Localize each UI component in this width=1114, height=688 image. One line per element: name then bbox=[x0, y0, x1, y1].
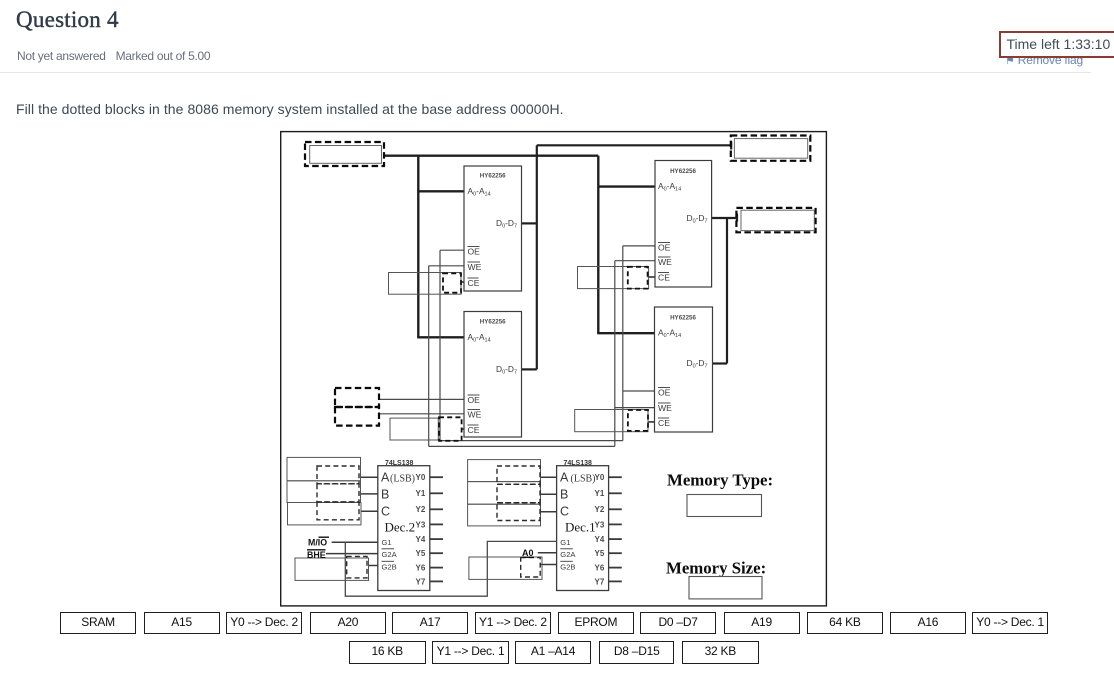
drop zone white box at U2 CE bbox=[390, 418, 438, 440]
svg-text:Dec.2: Dec.2 bbox=[385, 520, 416, 535]
wire: M/IO to Dec.2 G1 bbox=[332, 541, 378, 543]
svg-text:A0-A14: A0-A14 bbox=[468, 332, 491, 344]
svg-text:Y6: Y6 bbox=[416, 564, 426, 573]
svg-text:Y1: Y1 bbox=[595, 489, 605, 498]
wire: U1 OE stub bbox=[440, 249, 464, 251]
Memory Type answer box bbox=[687, 495, 762, 517]
svg-text:BHE: BHE bbox=[307, 550, 326, 560]
svg-text:A: A bbox=[381, 471, 390, 485]
svg-text:G1: G1 bbox=[560, 538, 570, 547]
U2 pin labels bbox=[468, 319, 518, 436]
svg-text:Y1: Y1 bbox=[416, 489, 426, 498]
divider bbox=[0, 72, 1091, 74]
Dec.1 G2B drop zone white box bbox=[469, 557, 542, 579]
U1 pin overbars OE WE CE bbox=[468, 247, 481, 279]
wire: U2 A0-A14 stub bbox=[417, 336, 464, 338]
svg-text:OE: OE bbox=[468, 395, 481, 405]
svg-text:Y7: Y7 bbox=[416, 577, 426, 586]
svg-text:G2A: G2A bbox=[560, 550, 576, 559]
wire: U1 D0-D7 stub bbox=[522, 222, 537, 224]
Dec.1 G2B drop target dashed box bbox=[521, 558, 541, 578]
U3 pin labels bbox=[658, 168, 708, 283]
svg-text:A0: A0 bbox=[522, 548, 534, 558]
drop zone white box at U1 CE bbox=[389, 273, 462, 295]
wire: WE chain right vertical bbox=[614, 261, 616, 447]
U4 pin overbars OE WE CE bbox=[658, 388, 671, 419]
flag link (partially hidden) bbox=[1005, 53, 1083, 67]
wire: Dec.2 G2B from dashed source bbox=[369, 565, 378, 567]
wire: WE source to U2 WE bbox=[379, 413, 464, 415]
svg-text:A0-A14: A0-A14 bbox=[468, 186, 491, 198]
svg-text:D0-D7: D0-D7 bbox=[687, 358, 708, 370]
U4 pin labels bbox=[658, 315, 708, 429]
memory chip U1 HY62256 bbox=[464, 166, 522, 291]
drop target dashed box D8-D15 (top right) bbox=[731, 136, 811, 161]
wire: OE chain left vertical bbox=[439, 250, 441, 440]
svg-text:74LS138: 74LS138 bbox=[385, 460, 414, 467]
svg-text:Y4: Y4 bbox=[595, 535, 605, 544]
drop target dashed box at U1 CE bbox=[443, 273, 461, 292]
svg-text:Memory Type:: Memory Type: bbox=[667, 471, 773, 490]
svg-text:(LSB): (LSB) bbox=[571, 473, 596, 484]
wire: U4 D0-D7 stub bbox=[713, 362, 728, 364]
wire: U2 D0-D7 stub bbox=[522, 368, 537, 370]
svg-text:A0-A14: A0-A14 bbox=[658, 328, 681, 340]
white box inside A1-A14 source bbox=[310, 146, 382, 164]
svg-text:Y6: Y6 bbox=[595, 564, 605, 573]
memory chip U2 HY62256 bbox=[464, 312, 522, 438]
svg-text:Y2: Y2 bbox=[416, 505, 426, 514]
wire: U3 OE stub bbox=[623, 245, 655, 247]
Dec.1 G2A G2B overbars bbox=[560, 549, 573, 562]
wire: U3 D0-D7 to low data block bbox=[712, 217, 738, 219]
svg-text:CE: CE bbox=[658, 273, 670, 283]
Dec.2 G2B drop target dashed box bbox=[347, 556, 367, 578]
decoder U6 74LS138 Dec.1 bbox=[557, 466, 609, 591]
svg-text:C: C bbox=[560, 505, 569, 519]
svg-text:74LS138: 74LS138 bbox=[564, 460, 593, 467]
svg-text:G2B: G2B bbox=[382, 562, 397, 571]
svg-text:HY62256: HY62256 bbox=[480, 319, 506, 326]
drop target dashed box WE source (left middle) bbox=[335, 407, 379, 426]
svg-text:B: B bbox=[560, 488, 568, 502]
svg-text:B: B bbox=[381, 488, 389, 502]
svg-text:CE: CE bbox=[468, 278, 480, 288]
wire: data bus D0-D7 vertical bbox=[726, 218, 728, 364]
wire: U3 A0-A14 stub bbox=[598, 185, 655, 187]
svg-text:OE: OE bbox=[658, 388, 671, 398]
wire: WE chain bottom horizontal bbox=[429, 445, 615, 447]
Dec.2 input drop zone white boxes bbox=[287, 457, 361, 480]
drop zone white box at U3 CE bbox=[578, 267, 649, 289]
svg-text:M/IO: M/IO bbox=[308, 537, 327, 547]
U3 pin overbars OE WE CE bbox=[658, 243, 671, 273]
wire: OE source to U2 OE bbox=[379, 398, 464, 400]
memory chip U4 HY62256 bbox=[655, 307, 713, 432]
wire: OE chain bottom horizontal bbox=[440, 440, 623, 442]
svg-text:HY62256: HY62256 bbox=[670, 168, 696, 175]
white box inside D8-D15 bbox=[734, 139, 807, 159]
drop target dashed box OE source (left middle) bbox=[335, 388, 379, 407]
wire: U3 WE stub bbox=[615, 260, 655, 262]
diagram outer frame bbox=[281, 132, 827, 606]
wire end tick at D0-D7 block bbox=[736, 214, 738, 222]
svg-text:G1: G1 bbox=[382, 538, 392, 547]
wire: U2 CE stub bbox=[461, 428, 464, 430]
Memory Size answer box bbox=[689, 577, 762, 599]
wire: Dec.1 G2B from dashed source bbox=[540, 564, 556, 566]
wire: U3 CE stub bbox=[648, 276, 655, 278]
Dec.1 labels bbox=[560, 460, 605, 587]
Dec.2 labels bbox=[381, 460, 426, 587]
svg-text:WE: WE bbox=[468, 410, 482, 420]
wire: M/IO branch down to Dec.1 G1 bbox=[345, 541, 556, 596]
wire end tick at D8-D15 block bbox=[730, 142, 732, 150]
svg-text:C: C bbox=[381, 505, 390, 519]
svg-text:WE: WE bbox=[658, 403, 672, 413]
Dec.2 G2A G2B overbars bbox=[382, 549, 395, 562]
svg-text:G2B: G2B bbox=[560, 562, 575, 571]
question text bbox=[16, 101, 564, 117]
wire: address bus left vertical bbox=[417, 156, 419, 338]
svg-text:WE: WE bbox=[468, 262, 482, 272]
drop zone white box at U4 CE bbox=[575, 410, 648, 432]
svg-text:CE: CE bbox=[658, 418, 670, 428]
Dec.2 input drop target dashed boxes bbox=[317, 466, 359, 520]
wire: U1 WE stub bbox=[429, 265, 464, 267]
svg-text:D0-D7: D0-D7 bbox=[496, 218, 517, 230]
status line bbox=[17, 49, 210, 63]
svg-text:Y4: Y4 bbox=[416, 535, 426, 544]
answer option boxes row 2 bbox=[349, 641, 426, 664]
svg-text:Y0: Y0 bbox=[595, 473, 605, 482]
svg-text:HY62256: HY62256 bbox=[670, 315, 696, 322]
Dec.1 input drop target dashed boxes bbox=[497, 466, 540, 521]
svg-text:HY62256: HY62256 bbox=[480, 173, 506, 180]
heading bbox=[16, 7, 119, 33]
Dec.1 input drop zone white boxes bbox=[468, 460, 541, 482]
svg-text:OE: OE bbox=[468, 247, 481, 257]
svg-text:CE: CE bbox=[468, 425, 480, 435]
wire: U1 CE stub bbox=[461, 281, 465, 283]
Dec.2 G2B drop zone white box bbox=[295, 558, 369, 580]
svg-text:Y7: Y7 bbox=[595, 577, 605, 586]
drop target dashed box at U2 CE bbox=[439, 417, 462, 441]
wire: U4 WE stub bbox=[615, 407, 655, 409]
U2 pin overbars OE WE CE bbox=[468, 395, 481, 425]
wire: WE chain left vertical bbox=[428, 266, 430, 447]
svg-text:D0-D7: D0-D7 bbox=[687, 213, 708, 225]
drop target dashed box at U4 CE bbox=[628, 410, 648, 431]
svg-text:G2A: G2A bbox=[382, 550, 398, 559]
answer option boxes row 1 bbox=[60, 612, 136, 634]
svg-text:WE: WE bbox=[658, 257, 672, 267]
Dec.1 input wires A B C bbox=[541, 477, 557, 512]
wire: data bus D8-D15 horizontal to top-right block bbox=[537, 144, 732, 146]
svg-text:Y5: Y5 bbox=[416, 549, 426, 558]
svg-text:Y5: Y5 bbox=[595, 549, 605, 558]
drop target dashed box at U3 CE bbox=[628, 267, 648, 289]
svg-text:Y3: Y3 bbox=[416, 520, 426, 529]
wire: U1 A0-A14 stub bbox=[418, 190, 464, 192]
U1 pin labels bbox=[468, 173, 518, 289]
svg-text:A: A bbox=[560, 471, 569, 485]
decoder U5 74LS138 Dec.2 bbox=[378, 466, 430, 591]
svg-text:Memory Size:: Memory Size: bbox=[666, 559, 766, 578]
wire: data bus D8-D15 vertical bbox=[536, 145, 538, 369]
svg-text:Y2: Y2 bbox=[595, 505, 605, 514]
svg-text:Y0: Y0 bbox=[416, 473, 426, 482]
svg-text:(LSB): (LSB) bbox=[390, 473, 415, 484]
svg-text:Dec.1: Dec.1 bbox=[565, 520, 596, 535]
wire: address bus horizontal from A1-A14 block bbox=[384, 154, 598, 156]
wire: U4 OE stub bbox=[623, 390, 655, 392]
wire: U4 CE stub bbox=[648, 421, 655, 423]
time left box bbox=[999, 31, 1114, 59]
drop target dashed box D0-D7 (right middle) bbox=[736, 208, 815, 232]
memory chip U3 HY62256 bbox=[655, 161, 712, 288]
svg-text:OE: OE bbox=[658, 243, 671, 253]
Dec.2 Y output stubs Y0-Y7 bbox=[430, 477, 443, 581]
wire: A0 to Dec.1 G2A bbox=[538, 552, 557, 554]
wire: U4 A0-A14 stub bbox=[597, 332, 654, 334]
white box inside D0-D7 bbox=[741, 210, 814, 230]
Dec.2 input wires A B C bbox=[361, 477, 378, 511]
svg-text:D0-D7: D0-D7 bbox=[496, 364, 517, 376]
drop target dashed box A1-A14 source (top left) bbox=[305, 142, 384, 166]
wire: OE chain right vertical bbox=[622, 246, 624, 441]
Dec.1 Y output stubs Y0-Y7 bbox=[609, 477, 622, 581]
svg-text:A0-A14: A0-A14 bbox=[658, 181, 681, 193]
svg-text:Y3: Y3 bbox=[595, 520, 605, 529]
wire: address bus right vertical bbox=[597, 156, 599, 334]
wire: BHE to Dec.2 G2A bbox=[326, 553, 378, 555]
